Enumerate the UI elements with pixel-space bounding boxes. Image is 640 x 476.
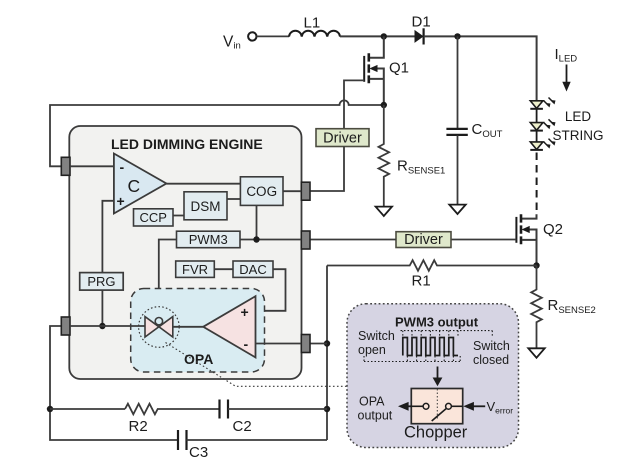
svg-text:PWM3 output: PWM3 output [395, 315, 479, 330]
block PRG [80, 273, 124, 291]
node junction left rail [47, 406, 53, 412]
resistor RSENSE2 [531, 266, 596, 349]
svg-text:Switch: Switch [473, 339, 510, 353]
svg-text:PWM3: PWM3 [189, 232, 228, 247]
wire Q1 gate to Driver [344, 80, 364, 128]
wire DAC to OPA + input [256, 269, 286, 311]
svg-text:R1: R1 [412, 273, 431, 290]
comparator U2 [114, 154, 166, 214]
wire R2C2 branch left segment [50, 408, 125, 410]
resistor R1 [327, 260, 537, 289]
block DAC [233, 261, 273, 277]
svg-text:Q2: Q2 [543, 221, 563, 238]
svg-text:Driver: Driver [404, 232, 443, 248]
wire comparator output to COG [166, 183, 240, 185]
svg-text:+: + [241, 304, 249, 320]
svg-text:C2: C2 [233, 418, 252, 435]
wire left rail [50, 326, 178, 440]
node junction PWM3/COG [253, 236, 259, 242]
switch S2 (chopper detail) [404, 389, 468, 442]
capacitor C2 [220, 400, 328, 436]
svg-text:C3: C3 [189, 444, 208, 461]
block PWM3 [177, 231, 241, 248]
label ILED with arrow [555, 46, 578, 92]
wire dashed LED string to Q2 [536, 153, 538, 215]
svg-text:OPA: OPA [359, 395, 385, 409]
block DSM [184, 192, 227, 220]
svg-text:-: - [120, 159, 125, 175]
driver U3 (upper Driver) [316, 129, 369, 147]
svg-text:Chopper: Chopper [404, 424, 468, 442]
wire COG to pin [283, 190, 301, 192]
block OPA region (dashed) [131, 289, 265, 373]
capacitor C3 [178, 430, 327, 461]
ground below RSENSE2 [528, 348, 544, 357]
diode D1 [412, 14, 431, 45]
block FVR [176, 261, 215, 277]
node junction at Cout [454, 33, 460, 39]
inductor L1 [289, 15, 340, 37]
ground below RSENSE1 [376, 207, 392, 216]
wire FVR to DAC [214, 268, 233, 270]
svg-text:LED: LED [565, 109, 592, 124]
block Chopper inset [347, 304, 519, 448]
ground below COUT [449, 205, 465, 214]
svg-text:STRING: STRING [552, 128, 603, 143]
svg-text:LED DIMMING ENGINE: LED DIMMING ENGINE [111, 136, 263, 152]
wire arrow Verror [463, 399, 513, 416]
wire LED1-LED2 [536, 109, 538, 123]
pin left A (comparator input) [61, 157, 70, 175]
svg-text:D1: D1 [412, 14, 431, 31]
svg-text:closed: closed [473, 353, 509, 367]
driver U4 (lower Driver) [396, 232, 451, 249]
pin right OPA [301, 335, 310, 353]
op-amp OPA [184, 296, 256, 367]
pin right PWM3 [301, 231, 310, 249]
svg-text:Driver: Driver [323, 131, 362, 147]
wire PWM3 to pin right [240, 239, 301, 241]
transistor Q2 [516, 214, 563, 265]
resistor R2 [125, 404, 219, 435]
node junction Q2 source [533, 262, 539, 268]
block COG [240, 177, 283, 206]
svg-text:+: + [117, 193, 125, 209]
wire Driver2 to PWM3 pin [310, 239, 396, 241]
wire L1 to D1 [340, 35, 415, 37]
wire COG bottom to PWM3 wire [256, 205, 258, 239]
LED D2 (top of string) [530, 98, 555, 109]
capacitor COUT [446, 36, 502, 204]
wire PWM3 left to chopper switch [159, 240, 177, 318]
svg-text:Q1: Q1 [389, 60, 409, 77]
LED DIMMING ENGINE block U1 [69, 126, 301, 379]
svg-text:OPA: OPA [184, 351, 213, 367]
wire feedback Rsense1 to left pin (with hop) [50, 100, 384, 166]
svg-text:-: - [244, 336, 249, 352]
svg-text:L1: L1 [304, 15, 321, 32]
wire pin B to chopper switch [70, 325, 145, 327]
svg-text:DSM: DSM [191, 199, 221, 214]
node junction OPA- [324, 340, 330, 346]
node junction at Q1 drain [381, 33, 387, 39]
transistor Q1 [364, 36, 409, 105]
wire DSM to COG [227, 198, 240, 200]
wire Vin to L1 [257, 35, 290, 37]
svg-text:C: C [128, 176, 141, 196]
svg-text:DAC: DAC [239, 262, 266, 277]
node Vin terminal [223, 32, 257, 51]
wire feedback node vertical (R1/OPA-/R2C2/C3) [326, 266, 328, 441]
wire dotted callout to Chopper inset [166, 343, 348, 387]
wire OPA - input to pin [256, 343, 302, 345]
svg-text:CCP: CCP [139, 210, 166, 225]
svg-text:open: open [358, 343, 386, 357]
svg-text:output: output [358, 409, 393, 423]
LED D4 (bottom of string) [530, 139, 555, 150]
svg-text:R2: R2 [129, 418, 148, 435]
wire Q2 gate to Driver2 [451, 239, 516, 241]
pin left B (OPA input) [61, 317, 70, 335]
wire Driver to COG pin [302, 147, 345, 192]
label LED STRING [552, 109, 603, 143]
waveform PWM3 [364, 331, 492, 362]
svg-text:Switch: Switch [358, 329, 395, 343]
LED D3 (middle of string) [530, 119, 555, 130]
switch S1 (chopper bowtie) [139, 307, 180, 348]
pin right COG [301, 182, 310, 200]
svg-text:FVR: FVR [182, 262, 208, 277]
node junction R2C2 [324, 406, 330, 412]
wire OPA- pin to node [310, 343, 327, 345]
block CCP [134, 209, 174, 226]
svg-text:COG: COG [246, 184, 277, 199]
wire CCP to DSM [173, 215, 184, 217]
wire arrow OPA output [358, 395, 412, 423]
svg-text:PRG: PRG [87, 274, 115, 289]
wire LED2-LED3 [536, 131, 538, 142]
wire chopper switch to OPA [173, 326, 203, 328]
resistor RSENSE1 [379, 105, 446, 207]
wire D1 to top-right corner [424, 36, 537, 101]
wire PRG vertical (+ input to node) [102, 201, 114, 326]
node junction PRG rail [99, 323, 105, 329]
wire pin A to comparator - input [70, 165, 114, 167]
wire arrow PWM3 to switch [433, 367, 443, 387]
node junction Q1 source [381, 102, 387, 108]
